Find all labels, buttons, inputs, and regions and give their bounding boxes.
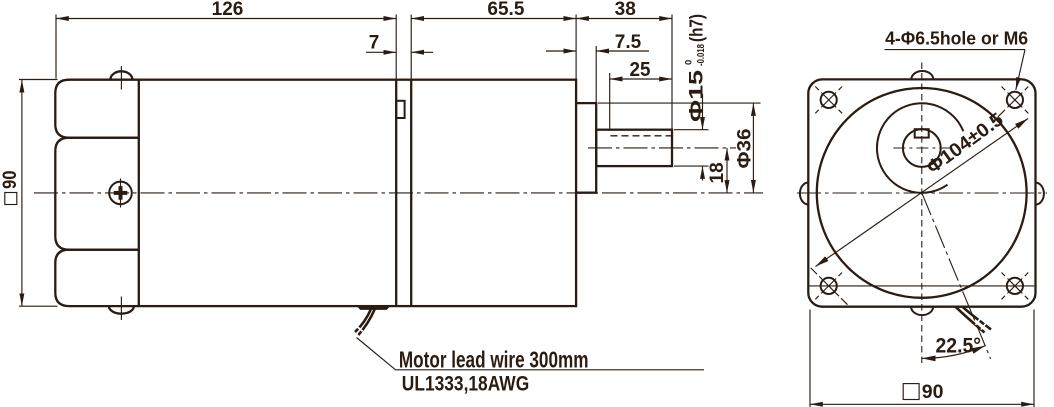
- svg-text:4-Φ6.5hole or M6: 4-Φ6.5hole or M6: [885, 27, 1028, 48]
- svg-text:7: 7: [369, 33, 380, 54]
- svg-text:25: 25: [630, 58, 651, 81]
- svg-text:22.5°: 22.5°: [936, 333, 982, 357]
- svg-text:65.5: 65.5: [487, 0, 524, 20]
- svg-text:7.5: 7.5: [615, 32, 642, 53]
- svg-text:-0.018: -0.018: [696, 44, 707, 66]
- svg-text:0: 0: [684, 60, 695, 65]
- svg-text:90: 90: [922, 381, 944, 403]
- svg-text:126: 126: [212, 0, 244, 20]
- svg-text:Φ15: Φ15: [686, 70, 708, 122]
- svg-text:Φ36: Φ36: [735, 129, 756, 169]
- svg-text:Motor lead wire 300mm: Motor lead wire 300mm: [399, 346, 589, 372]
- svg-text:18: 18: [707, 162, 728, 183]
- svg-text:(h7): (h7): [687, 14, 707, 42]
- svg-text:UL1333,18AWG: UL1333,18AWG: [402, 372, 529, 396]
- svg-text:90: 90: [0, 171, 21, 190]
- svg-text:38: 38: [615, 0, 636, 20]
